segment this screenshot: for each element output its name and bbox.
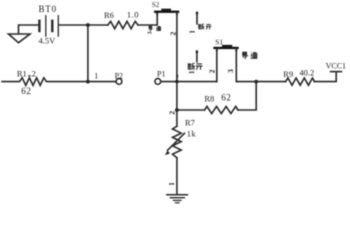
svg-text:S1: S1: [215, 37, 223, 46]
state label duan-kai (S1 pin 1 open): [188, 63, 202, 70]
battery BT0: [39, 16, 58, 36]
node E junction: [254, 80, 258, 84]
svg-text:40.2: 40.2: [299, 67, 314, 77]
svg-text:1: 1: [188, 70, 196, 74]
S2 pin 1 open stub: [196, 12, 199, 24]
svg-text:R9: R9: [283, 69, 293, 79]
state label dao-tong (S1 pin 3 closed): [242, 52, 257, 58]
state label dao-tong (S2 pin 3 closed): [149, 26, 161, 31]
S1 pin 2 lead: [216, 49, 218, 82]
svg-text:BT0: BT0: [39, 4, 57, 14]
svg-text:R6: R6: [104, 10, 114, 20]
resistor R1 with leads: [2, 78, 86, 86]
svg-text:P1: P1: [157, 69, 165, 78]
switch S2 (bar and button): [154, 9, 179, 13]
resistor R6: [108, 21, 138, 28]
ground (bottom, multi-bar): [167, 195, 188, 203]
terminal P2: [116, 79, 122, 85]
svg-text:1: 1: [168, 182, 176, 186]
svg-text:P2: P2: [115, 72, 123, 81]
resistor R9: [286, 78, 315, 85]
svg-text:1k: 1k: [187, 129, 197, 139]
resistor R8: [205, 106, 238, 113]
wire R9 to VCC1: [315, 72, 337, 81]
wire node D to R8: [177, 109, 205, 111]
svg-text:1.0: 1.0: [127, 9, 139, 19]
resistor R7 (rheostat): [173, 126, 182, 158]
svg-text:S2: S2: [152, 1, 160, 9]
svg-text:3: 3: [148, 31, 154, 34]
wire node B to P2: [88, 81, 116, 83]
switch S1 (bar and button): [213, 45, 238, 49]
wire node A down to node B: [87, 25, 89, 82]
wire S1 pin 3 to node E: [236, 81, 285, 83]
wire R6 to S2 pin 3: [138, 13, 157, 25]
node D junction: [175, 108, 179, 112]
svg-text:62: 62: [21, 86, 31, 96]
S2 pin 2 end dot: [176, 13, 178, 15]
S1 pin 3 lead: [235, 49, 237, 82]
svg-text:VCC1: VCC1: [326, 62, 346, 71]
power VCC1 bar: [331, 71, 342, 73]
svg-text:4.5V: 4.5V: [39, 36, 57, 46]
node C junction: [175, 80, 178, 83]
node B junction: [86, 80, 90, 84]
svg-text:2: 2: [167, 111, 176, 115]
wire P1 through node C to S1 pin 2: [161, 81, 217, 83]
node A junction: [86, 23, 90, 27]
R7 wiper arrow: [165, 133, 185, 155]
wire R8 up to node E: [238, 82, 256, 110]
wire R7 to ground: [176, 158, 178, 195]
svg-text:1: 1: [94, 72, 98, 81]
S1 pin 1 open stub: [196, 51, 199, 62]
state label duan-kai (S2 pin 1 open): [199, 24, 212, 29]
pin end tick above node C: [176, 75, 178, 78]
wire S2 pin 2 down through node C and node D to R7: [176, 13, 178, 126]
S2 pin 3 end dot: [156, 13, 158, 15]
svg-text:2: 2: [32, 69, 36, 79]
terminal P1: [155, 79, 161, 85]
S1 pin 2 end dot: [216, 49, 218, 51]
svg-text:R7: R7: [185, 118, 195, 128]
svg-text:R1: R1: [17, 69, 27, 79]
svg-text:2: 2: [208, 69, 217, 73]
svg-text:1: 1: [188, 30, 196, 34]
wire battery plus to node A: [59, 24, 108, 26]
svg-text:R8: R8: [204, 94, 214, 104]
svg-text:62: 62: [221, 92, 231, 102]
ground (earth triangle at battery negative): [9, 25, 39, 43]
svg-text:3: 3: [226, 69, 235, 73]
S1 pin 3 end dot: [235, 49, 237, 51]
pin 2 label of R1: [28, 69, 36, 79]
